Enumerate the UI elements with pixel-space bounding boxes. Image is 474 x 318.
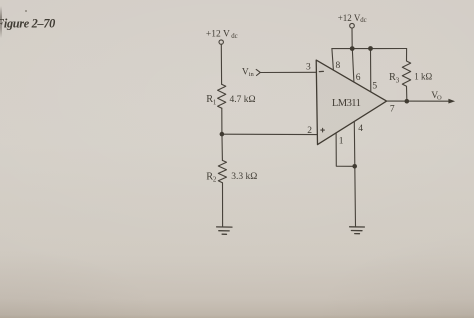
wire pin 6: [352, 49, 354, 82]
ground right: [350, 227, 365, 234]
svg-text:3: 3: [396, 76, 400, 84]
svg-text:3.3 kΩ: 3.3 kΩ: [231, 172, 257, 182]
junction dot R1-R2 node: [220, 132, 225, 137]
svg-text:dc: dc: [231, 33, 237, 40]
wire R1 bottom to node junction: [221, 108, 223, 132]
minus input mark: [319, 70, 323, 72]
svg-text:4: 4: [358, 124, 363, 134]
svg-text:1: 1: [213, 98, 217, 106]
svg-text:6: 6: [356, 73, 361, 83]
svg-text:in: in: [249, 71, 255, 78]
svg-text:3: 3: [306, 62, 311, 72]
wire supply-left to R1 top: [220, 44, 222, 84]
svg-text:2: 2: [307, 126, 312, 136]
svg-text:1: 1: [339, 137, 344, 147]
wire pin 8: [332, 49, 334, 71]
svg-text:LM311: LM311: [332, 98, 361, 109]
svg-text:2: 2: [213, 176, 217, 184]
junction dot rail pin6: [350, 46, 355, 51]
svg-text:Figure 2–70: Figure 2–70: [0, 17, 55, 31]
op-amp U1 LM311 triangle: [316, 60, 386, 145]
resistor R2: [218, 160, 226, 182]
svg-text:1 kΩ: 1 kΩ: [414, 71, 432, 81]
wire pin 5: [370, 49, 372, 92]
wire junction to R2 top: [221, 136, 223, 160]
wire junction to pin 2: [222, 133, 317, 135]
ground left: [217, 227, 232, 234]
svg-text:7: 7: [390, 105, 395, 115]
output arrowhead: [448, 99, 455, 104]
svg-text:5: 5: [372, 81, 377, 91]
resistor R1: [218, 84, 226, 108]
left page-edge shadow: [0, 6, 2, 38]
svg-text:O: O: [437, 94, 442, 101]
Vin source chevron: [256, 69, 260, 75]
speck: [25, 10, 27, 12]
junction dot pin1-pin4: [352, 164, 357, 169]
svg-text:8: 8: [336, 61, 341, 71]
wire pin 7 output: [387, 100, 449, 102]
node +12V left supply terminal: [219, 40, 223, 44]
wire pin 4 to ground: [354, 122, 355, 227]
wire supply-right down to rail: [351, 28, 353, 49]
wire R2 bottom to ground: [222, 183, 224, 227]
wire Vin to pin 3: [261, 71, 316, 73]
junction dot rail pin5: [368, 46, 373, 51]
wire supply rail: [332, 48, 407, 50]
wire pin 1: [336, 133, 355, 166]
svg-text:4.7 kΩ: 4.7 kΩ: [230, 95, 256, 105]
svg-text:dc: dc: [360, 17, 366, 24]
node +12V right supply terminal: [350, 23, 355, 28]
plus input mark: [321, 128, 325, 132]
svg-text:+12 V: +12 V: [338, 13, 361, 23]
junction dot output node: [405, 99, 410, 104]
resistor R3 with leads: [402, 49, 410, 99]
svg-text:+12 V: +12 V: [206, 30, 230, 40]
